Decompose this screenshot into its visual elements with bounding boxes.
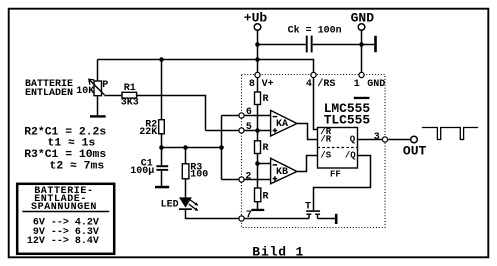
- svg-text:R1: R1: [124, 83, 136, 94]
- svg-text:10K: 10K: [76, 86, 94, 97]
- svg-text:R: R: [263, 192, 269, 203]
- svg-text:t2 ≈ 7ms: t2 ≈ 7ms: [50, 160, 105, 172]
- svg-text:6: 6: [246, 107, 252, 118]
- svg-text:LED: LED: [161, 199, 179, 210]
- svg-text:/S: /S: [320, 150, 331, 160]
- svg-text:OUT: OUT: [403, 144, 427, 159]
- svg-text:3K3: 3K3: [121, 97, 139, 108]
- svg-text:/RS: /RS: [317, 78, 335, 90]
- svg-text:100: 100: [190, 169, 208, 180]
- svg-text:Ck = 100n: Ck = 100n: [288, 24, 342, 36]
- svg-text:TLC555: TLC555: [324, 113, 371, 128]
- svg-text:SPANNUNGEN: SPANNUNGEN: [31, 202, 97, 213]
- svg-text:4: 4: [306, 79, 312, 90]
- svg-text:KA: KA: [276, 119, 288, 130]
- svg-text:8: 8: [249, 79, 255, 90]
- svg-text:/R: /R: [320, 134, 331, 144]
- svg-text:R3*C1 = 10ms: R3*C1 = 10ms: [24, 149, 106, 161]
- svg-text:/Q: /Q: [345, 150, 356, 160]
- svg-text:GND: GND: [367, 79, 385, 90]
- svg-text:KB: KB: [276, 167, 288, 178]
- svg-text:1: 1: [354, 79, 360, 90]
- svg-text:5: 5: [246, 122, 252, 133]
- svg-text:12V --> 8.4V: 12V --> 8.4V: [27, 236, 99, 247]
- svg-text:7: 7: [246, 210, 252, 221]
- svg-text:T: T: [305, 201, 311, 212]
- svg-text:R: R: [263, 143, 269, 154]
- svg-text:+Ub: +Ub: [244, 11, 268, 26]
- svg-text:GND: GND: [351, 11, 375, 26]
- svg-text:Bild 1: Bild 1: [252, 245, 304, 260]
- svg-text:3: 3: [374, 132, 380, 143]
- svg-text:2: 2: [245, 172, 251, 183]
- svg-text:P: P: [102, 80, 108, 91]
- svg-text:t1 ≈ 1s: t1 ≈ 1s: [48, 138, 96, 150]
- svg-text:FF: FF: [330, 169, 341, 179]
- svg-text:R: R: [263, 94, 269, 105]
- svg-text:R2*C1 = 2.2s: R2*C1 = 2.2s: [24, 126, 106, 138]
- svg-text:Q: Q: [350, 135, 356, 145]
- svg-text:V+: V+: [262, 79, 274, 90]
- svg-text:ENTLADEN: ENTLADEN: [25, 88, 73, 99]
- svg-text:22K: 22K: [139, 127, 157, 138]
- svg-text:100µ: 100µ: [130, 166, 154, 177]
